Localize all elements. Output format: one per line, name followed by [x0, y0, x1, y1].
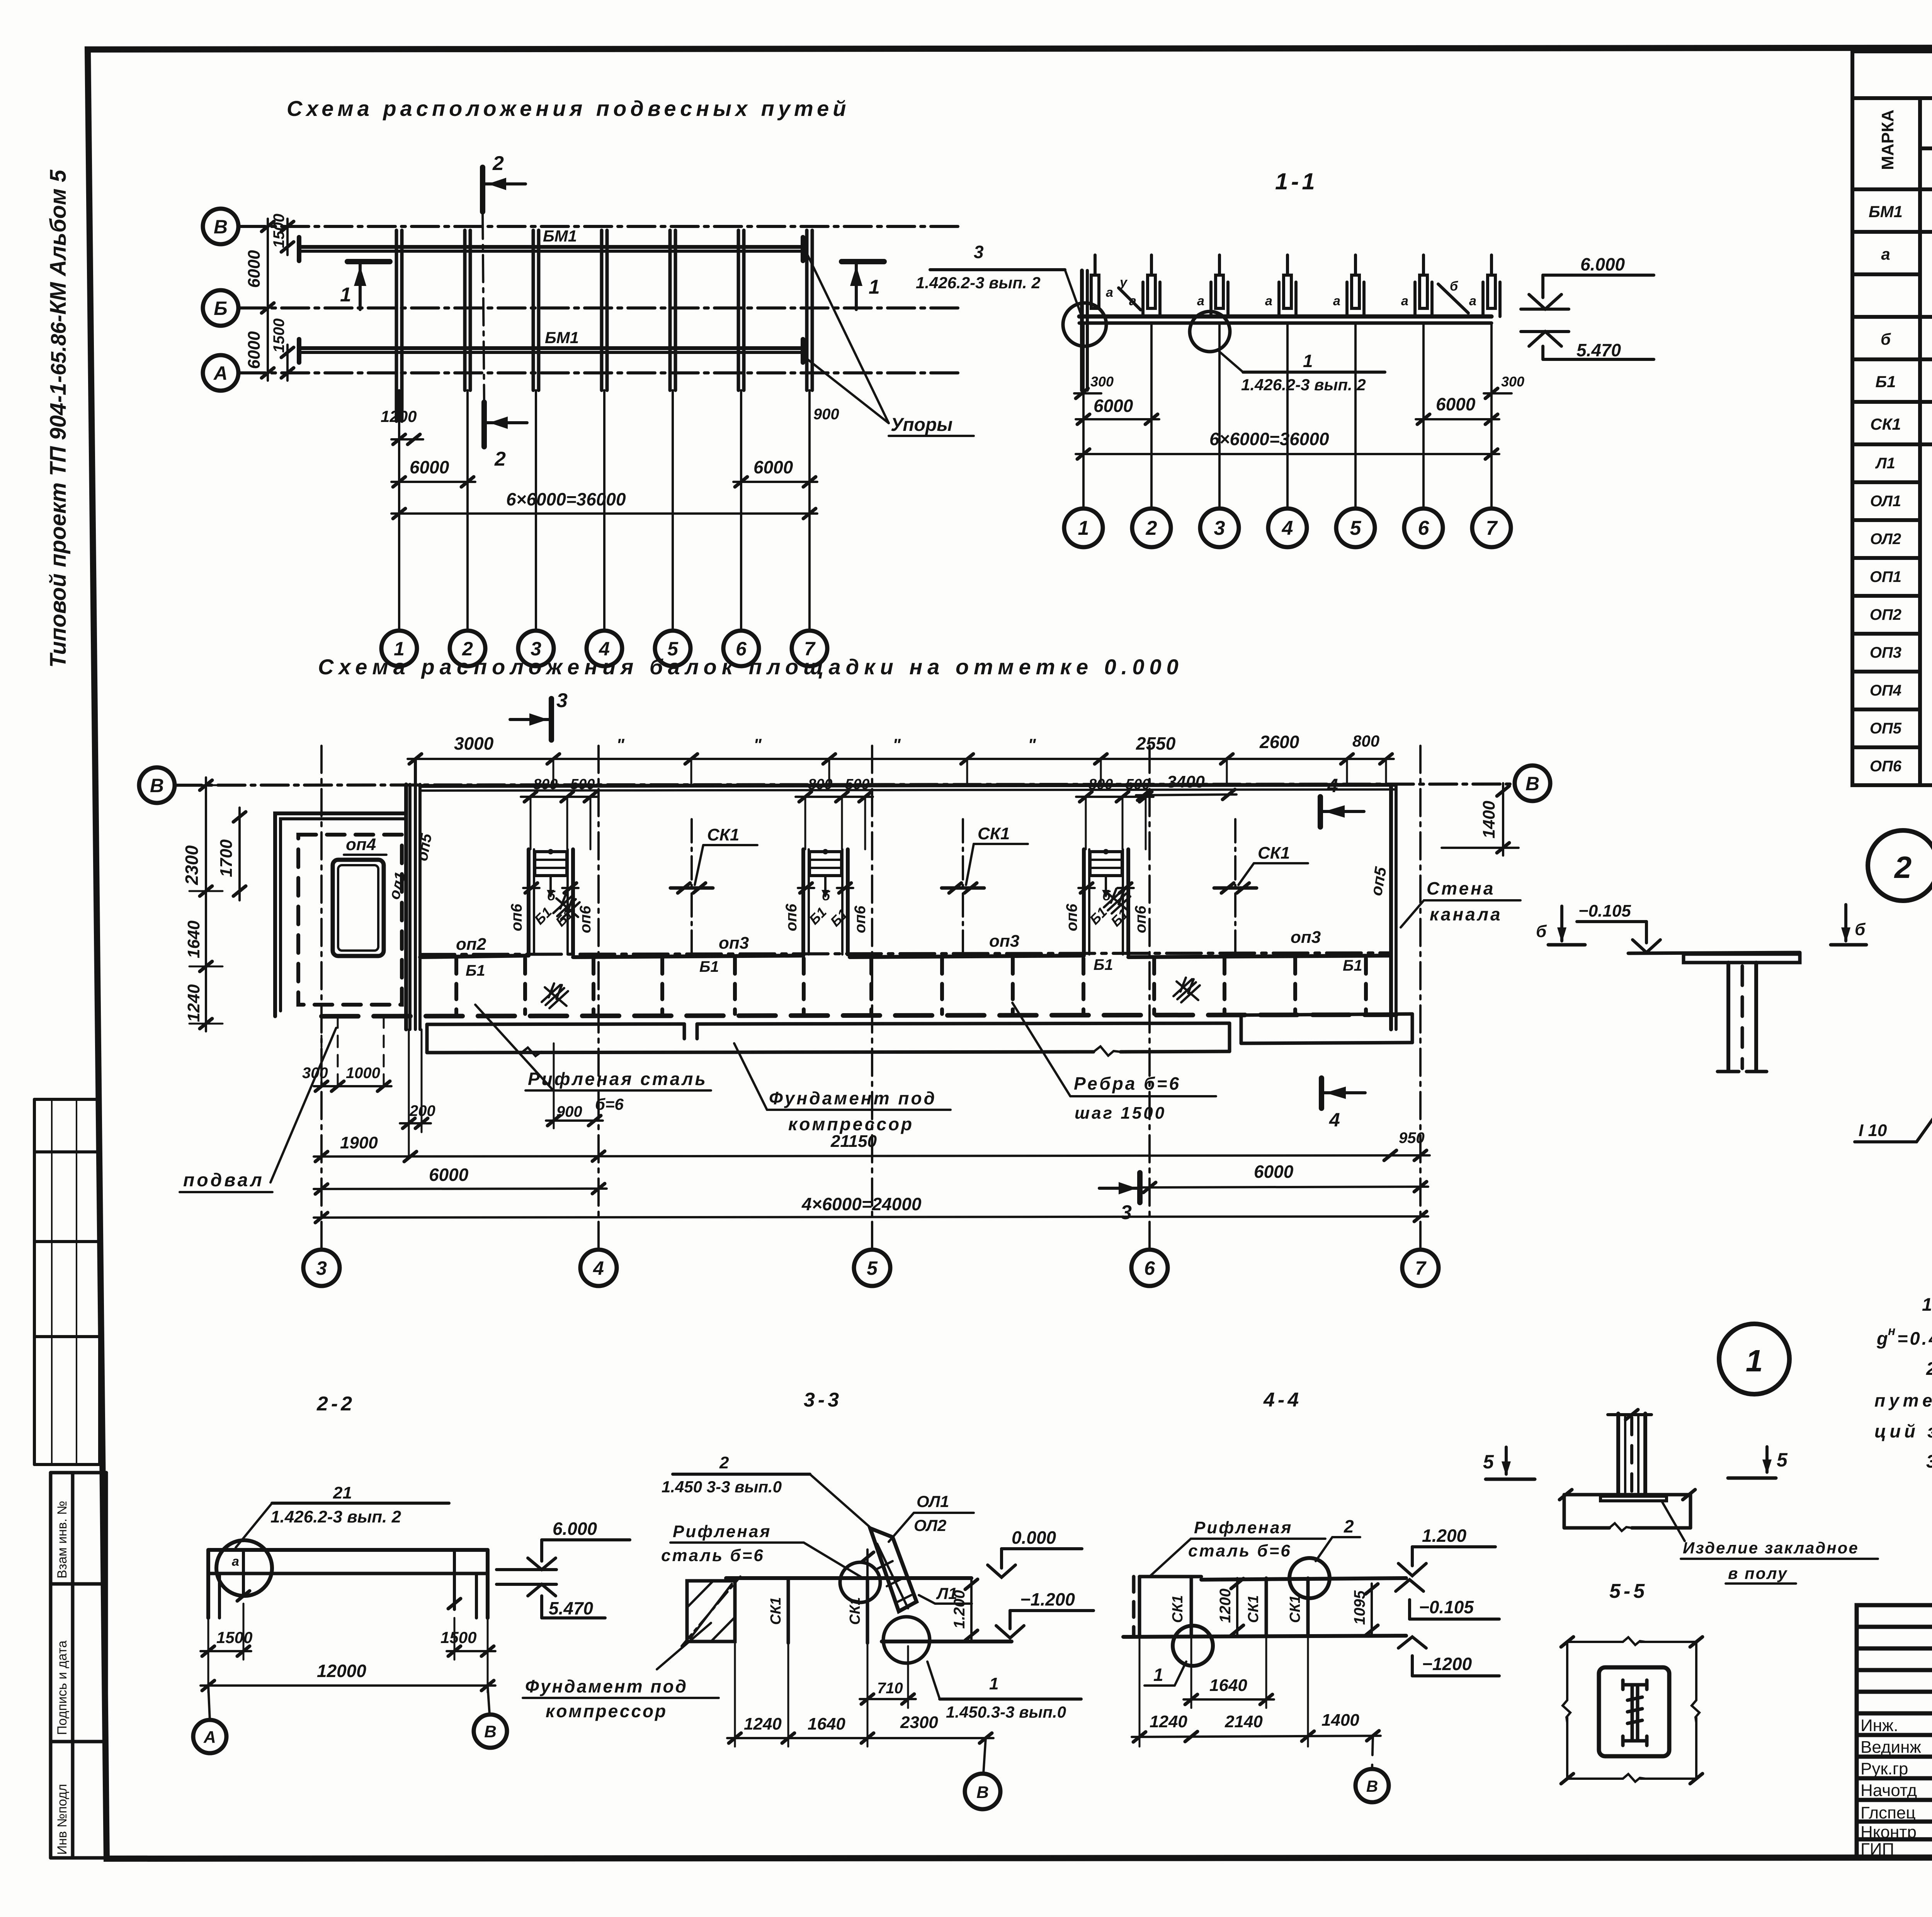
svg-text:а: а: [1265, 294, 1272, 308]
svg-text:5.470: 5.470: [1577, 340, 1621, 360]
svg-text:а: а: [1401, 294, 1408, 308]
svg-text:4: 4: [1327, 775, 1338, 796]
svg-text:б=6: б=6: [595, 1095, 624, 1113]
svg-text:1500: 1500: [440, 1628, 476, 1647]
svg-text:3: 3: [974, 242, 984, 262]
top dim line 3000 / " / 2550 / 2600 / 800: [408, 758, 1394, 760]
svg-text:1640: 1640: [1209, 1676, 1247, 1695]
column circle 4 (section 1-1): [1268, 509, 1307, 547]
svg-text:2140: 2140: [1225, 1712, 1263, 1731]
beam axis оп2/оп3 (dash-dot + solid): [420, 953, 1391, 954]
suspended-rail cross beam at column 7: [805, 230, 809, 390]
hanger a at column 7: [1481, 282, 1485, 316]
svg-text:900: 900: [813, 406, 839, 423]
2-2 detail circle: [216, 1540, 272, 1596]
axis line В (dash-dot): [238, 225, 962, 228]
svg-text:Подпись и дата: Подпись и дата: [55, 1640, 70, 1735]
svg-text:Б1: Б1: [1094, 956, 1113, 973]
svg-text:1200: 1200: [1217, 1589, 1234, 1623]
axis line Б (dash-dot): [238, 306, 962, 310]
svg-text:СК1: СК1: [768, 1597, 784, 1625]
basement (подвал) outer walls: [275, 813, 406, 1016]
column circle 6: [1131, 1250, 1168, 1286]
svg-text:2300: 2300: [900, 1713, 938, 1732]
svg-text:а: а: [1469, 294, 1476, 308]
column circle 3: [518, 631, 554, 666]
column circle 3 (section 1-1): [1200, 509, 1239, 547]
column line 5: [672, 390, 674, 631]
right rail stops (упоры): [801, 237, 805, 261]
label Изделие закладное в полу: [1662, 1501, 1685, 1541]
svg-text:6.000: 6.000: [1580, 254, 1625, 274]
svg-text:g: g: [1876, 1328, 1889, 1349]
3-3 dim 1.200 vertical: [970, 1578, 973, 1641]
svg-text:ОП4: ОП4: [1870, 682, 1901, 699]
column line 1: [398, 390, 400, 631]
column axis 6 (dash-dot): [1148, 746, 1151, 1250]
elevation mark 5.470: [1529, 332, 1561, 346]
svg-text:1240: 1240: [184, 984, 203, 1022]
svg-text:−1.200: −1.200: [1020, 1589, 1075, 1609]
4-4 dim 1640: [1184, 1698, 1274, 1701]
svg-text:канала: канала: [1430, 904, 1502, 924]
margin table: Взам инв № / Подпись и дата / Инв № подл: [51, 1473, 106, 1858]
svg-text:б: б: [1881, 330, 1891, 348]
3-3 ladder (diagonal): [870, 1528, 917, 1611]
dim line 6000+6000 between axes: [267, 219, 269, 381]
svg-text:4: 4: [1329, 1109, 1340, 1131]
svg-text:5-5: 5-5: [1609, 1580, 1648, 1602]
hanger a at column 3: [1209, 282, 1213, 316]
svg-text:СК1: СК1: [1170, 1595, 1186, 1623]
svg-text:ГИП: ГИП: [1861, 1840, 1894, 1859]
svg-text:2.Конструкции сварные. Сварку: 2.Конструкции сварные. Сварку элементов …: [1926, 1358, 1932, 1379]
section mark 4 (top): [1318, 797, 1323, 827]
3-3 floor line 0.000: [726, 1576, 971, 1580]
svg-text:1.450 3-3 вып.0: 1.450 3-3 вып.0: [662, 1478, 782, 1496]
svg-text:2600: 2600: [1259, 732, 1299, 752]
svg-text:путей производить электродам: путей производить электродами Э42А, оста…: [1874, 1390, 1932, 1410]
svg-text:ОЛ1: ОЛ1: [1870, 493, 1901, 510]
column line 4: [603, 390, 605, 631]
svg-text:б: б: [1855, 920, 1866, 939]
column line 5 (section 1-1): [1354, 323, 1357, 509]
svg-text:300: 300: [1501, 374, 1524, 390]
svg-text:3: 3: [316, 1257, 327, 1279]
column circle 6: [723, 631, 759, 666]
stair/ladder unit 1: [523, 849, 578, 954]
svg-text:Фундамент под: Фундамент под: [525, 1676, 688, 1696]
svg-text:2: 2: [1894, 850, 1912, 885]
svg-text:5: 5: [1777, 1449, 1788, 1471]
svg-text:6: 6: [1144, 1257, 1155, 1279]
svg-text:шаг 1500: шаг 1500: [1075, 1104, 1166, 1123]
3-3 detail circles on ladder: [840, 1562, 880, 1602]
svg-text:ОЛ2: ОЛ2: [1870, 531, 1901, 548]
svg-text:6000: 6000: [410, 457, 449, 477]
column circle 6 (section 1-1): [1404, 509, 1443, 547]
svg-text:н: н: [1888, 1324, 1895, 1338]
dim 3400: [1136, 794, 1236, 795]
svg-text:1095: 1095: [1351, 1590, 1368, 1625]
slab top edge (double): [420, 785, 1396, 786]
svg-text:2: 2: [1146, 517, 1157, 539]
4-4 dims 1240/2140/1400: [1132, 1736, 1381, 1737]
dim 300 1000: [314, 1085, 391, 1087]
dim 1400 (right): [1502, 783, 1504, 856]
suspended-rail cross beam at column 4: [600, 230, 604, 390]
svg-text:а: а: [1333, 294, 1340, 308]
column circle 7: [1402, 1250, 1439, 1286]
column circle 1 (section 1-1): [1064, 509, 1103, 547]
svg-text:1240: 1240: [1150, 1712, 1187, 1731]
svg-text:800: 800: [808, 776, 832, 793]
svg-text:Б1: Б1: [1343, 957, 1362, 974]
svg-text:компрессор: компрессор: [788, 1114, 914, 1134]
svg-text:Глспец: Глспец: [1861, 1803, 1916, 1822]
title block (основная надпись): [1857, 1605, 1932, 1858]
4-4 lower floor line: [1123, 1636, 1406, 1637]
svg-text:СК1: СК1: [978, 824, 1010, 843]
foundation under compressor (outline): [427, 1014, 1412, 1056]
dim 6000 (6-7): [1142, 1187, 1428, 1187]
column circle 5: [854, 1250, 890, 1286]
svg-text:=0.4кПа.: =0.4кПа.: [1897, 1328, 1932, 1349]
svg-text:МАРКА: МАРКА: [1878, 110, 1897, 170]
ribs (ребра) dashed verticals: [456, 958, 1366, 1014]
dim 6000 (cols 1-2): [391, 481, 475, 483]
svg-text:1400: 1400: [1480, 801, 1498, 839]
svg-text:1400: 1400: [1321, 1711, 1359, 1730]
svg-text:подвал: подвал: [183, 1170, 264, 1191]
column line 1 (section 1-1): [1082, 323, 1085, 509]
3-3 СК1 columns: [787, 1578, 790, 1643]
dim line 2300/1640/1240 (left): [205, 777, 207, 1031]
svg-text:ОП2: ОП2: [1870, 606, 1901, 623]
svg-text:Б: Б: [214, 298, 227, 319]
svg-text:1: 1: [989, 1674, 998, 1693]
svg-text:оп6: оп6: [577, 905, 594, 933]
svg-text:ОЛ1: ОЛ1: [917, 1492, 949, 1510]
rail БМ1 (top, double line): [299, 245, 803, 249]
svg-text:6×6000=36000: 6×6000=36000: [506, 489, 626, 509]
svg-text:ОП6: ОП6: [1870, 758, 1902, 775]
svg-text:7: 7: [1486, 517, 1498, 539]
dim 800/500 above unit 3: [1076, 796, 1153, 798]
svg-text:ОЛ2: ОЛ2: [914, 1516, 946, 1534]
svg-text:б: б: [822, 889, 830, 903]
svg-text:3000: 3000: [454, 733, 494, 754]
5-5 I-beam cross-section: [1623, 1680, 1647, 1745]
column СК1 #1 (cross mark): [670, 886, 713, 890]
svg-text:Нконтр: Нконтр: [1861, 1823, 1917, 1842]
svg-text:−1200: −1200: [1422, 1654, 1472, 1674]
svg-text:Схема расположения балок пл: Схема расположения балок площадки на отм…: [318, 655, 1184, 679]
detail circle 2: [1868, 830, 1932, 901]
section mark б (right): [1844, 905, 1847, 941]
svg-text:2: 2: [492, 152, 504, 175]
svg-text:1500: 1500: [270, 318, 287, 353]
svg-text:6000: 6000: [429, 1165, 469, 1185]
brace mark б near column 2: [1119, 288, 1141, 310]
svg-text:1.200: 1.200: [951, 1590, 968, 1629]
svg-text:1.426.2-3 вып. 2: 1.426.2-3 вып. 2: [1241, 376, 1366, 394]
svg-text:Инж.: Инж.: [1861, 1716, 1898, 1735]
dim 1500 top / bottom: [286, 219, 289, 255]
column circle 4: [587, 631, 622, 666]
table: ВЕДОМОСТЬ ЭЛЕМЕНТОВ: [1852, 51, 1932, 785]
column circle 5 (section 1-1): [1336, 509, 1375, 547]
svg-text:В: В: [484, 1722, 497, 1741]
svg-text:Схема расположения подвесных: Схема расположения подвесных путей: [287, 96, 850, 121]
svg-text:а: а: [1197, 294, 1204, 308]
svg-text:СК1: СК1: [707, 825, 739, 844]
column circle 5: [655, 631, 690, 666]
svg-text:1240: 1240: [744, 1715, 782, 1733]
svg-text:ций электродами Э42 по ГОС: ций электродами Э42 по ГОСТ 9467-75.: [1874, 1421, 1932, 1441]
column circle 2: [450, 631, 485, 666]
svg-text:1: 1: [1078, 517, 1089, 539]
svg-text:800: 800: [1352, 732, 1379, 750]
dim 1700: [238, 808, 241, 900]
dim 4x6000=24000: [314, 1216, 1428, 1218]
svg-text:оп6: оп6: [508, 903, 525, 931]
3-3 hatched wall block: [687, 1581, 735, 1641]
2-2 dim 1500 right: [447, 1650, 495, 1652]
svg-text:": ": [1028, 735, 1036, 754]
stair/ladder unit 3: [1078, 849, 1134, 954]
column circle 1: [381, 631, 417, 666]
svg-text:оп4: оп4: [346, 835, 376, 854]
svg-text:500: 500: [845, 776, 869, 793]
svg-text:1700: 1700: [217, 839, 236, 877]
svg-text:Б1: Б1: [1875, 373, 1896, 391]
svg-text:950: 950: [1399, 1129, 1425, 1146]
svg-text:оп6: оп6: [783, 903, 800, 931]
2-2 hangers: [242, 1550, 245, 1596]
svg-text:12000: 12000: [317, 1661, 366, 1681]
svg-text:3. Сварка ручная дуговая hш: 3. Сварка ручная дуговая hш=6мм.: [1926, 1451, 1932, 1471]
section mark 4 (bottom): [1319, 1078, 1324, 1108]
column line 3 (section 1-1): [1218, 323, 1221, 509]
section mark 2 (top): [480, 167, 485, 212]
column line 2: [466, 390, 469, 631]
brace mark б near column 7: [1438, 284, 1468, 313]
svg-text:500: 500: [1126, 776, 1150, 793]
svg-text:СК1: СК1: [1870, 415, 1901, 433]
svg-text:2: 2: [719, 1453, 729, 1472]
svg-text:б: б: [547, 889, 556, 903]
svg-text:−0.105: −0.105: [1578, 902, 1631, 920]
svg-text:б: б: [1536, 922, 1547, 941]
dim 6000 (cols 1-2): [1076, 418, 1159, 420]
column axis 5 (dash-dot): [871, 746, 873, 1250]
svg-text:а: а: [232, 1554, 239, 1569]
4-4 detail circle 2: [1289, 1558, 1330, 1598]
svg-text:БМ1: БМ1: [1869, 202, 1903, 221]
hanger a at column 1: [1091, 275, 1099, 308]
svg-text:СК1: СК1: [1245, 1595, 1262, 1623]
svg-text:3: 3: [556, 689, 568, 712]
svg-text:4-4: 4-4: [1263, 1389, 1302, 1411]
svg-text:5: 5: [867, 1257, 878, 1279]
4-4 upper floor line: [1201, 1578, 1406, 1580]
dim 6000 (3-4): [314, 1189, 607, 1189]
left rail stops (упоры): [297, 237, 301, 261]
svg-text:Ребра б=6: Ребра б=6: [1074, 1073, 1181, 1094]
svg-text:Фундамент под: Фундамент под: [769, 1088, 937, 1108]
section mark 2 (bottom): [481, 402, 487, 447]
grid axis circle А: [203, 355, 238, 391]
svg-text:Рифленая: Рифленая: [673, 1522, 771, 1541]
svg-text:оп2: оп2: [456, 935, 486, 954]
column СК1 #3 (cross mark): [1214, 886, 1257, 890]
svg-text:оп3: оп3: [1291, 928, 1321, 947]
svg-text:1900: 1900: [340, 1133, 378, 1152]
column line 6: [740, 390, 742, 631]
4-4 dim 1200 (vertical): [1236, 1578, 1238, 1636]
svg-text:4: 4: [1282, 517, 1293, 539]
svg-text:300: 300: [1090, 374, 1114, 390]
svg-text:5.470: 5.470: [549, 1598, 594, 1618]
svg-text:А: А: [213, 362, 228, 384]
svg-text:В: В: [1366, 1777, 1378, 1795]
rail БМ1 (bottom, double line): [299, 346, 803, 350]
axis line В (dash-dot): [175, 784, 1515, 785]
svg-text:4: 4: [593, 1257, 604, 1279]
5-5 plate: [1599, 1667, 1669, 1756]
svg-text:I 10: I 10: [1859, 1121, 1887, 1140]
stair/ladder unit 2: [798, 849, 853, 954]
svg-text:Б1: Б1: [699, 958, 719, 975]
svg-text:": ": [753, 735, 762, 754]
slab bottom edge (thick dashed): [321, 1015, 1396, 1016]
dim 6x6000=36000: [391, 512, 817, 515]
svg-text:Начотд: Начотд: [1861, 1781, 1917, 1800]
detail circle at column 1: [1063, 303, 1106, 346]
svg-text:Стена: Стена: [1427, 878, 1495, 898]
4-4 СК1 posts: [1190, 1578, 1193, 1636]
4-4 left wall block (dashed): [1132, 1577, 1136, 1636]
svg-text:Рифленая: Рифленая: [1194, 1518, 1293, 1537]
svg-text:оп3: оп3: [719, 934, 749, 953]
svg-text:1.Нормативная нагрузка на п: 1.Нормативная нагрузка на площадку на от…: [1922, 1294, 1932, 1315]
svg-text:0.000: 0.000: [1012, 1527, 1056, 1548]
svg-text:6: 6: [1418, 517, 1430, 539]
svg-text:СК1: СК1: [1287, 1595, 1303, 1623]
column axis 4 (dash-dot): [597, 746, 600, 1250]
svg-text:СК1: СК1: [1258, 844, 1290, 862]
hanger a at column 6: [1413, 282, 1417, 316]
column line 7 (section 1-1): [1490, 323, 1493, 509]
svg-text:1: 1: [1746, 1344, 1763, 1378]
svg-text:у: у: [1119, 275, 1128, 290]
svg-text:3: 3: [1121, 1201, 1132, 1224]
2-2 frame beam (double): [208, 1548, 488, 1552]
svg-text:6000: 6000: [245, 331, 264, 369]
svg-text:В: В: [976, 1783, 989, 1802]
column axis 3 (dash-dot): [320, 746, 323, 1250]
svg-text:б: б: [1450, 279, 1458, 294]
svg-text:1-1: 1-1: [1275, 168, 1318, 194]
svg-text:3-3: 3-3: [804, 1389, 842, 1411]
dim 800/500 above unit 1: [521, 796, 598, 798]
svg-text:сталь б=6: сталь б=6: [661, 1546, 765, 1565]
suspended-rail cross beam at column 2: [463, 230, 467, 390]
svg-text:900: 900: [556, 1103, 582, 1120]
main beam of section 1-1 (double line): [1079, 315, 1492, 319]
dim 1900 / 21150 / 950: [314, 1155, 1430, 1157]
column circle 2 (section 1-1): [1132, 509, 1171, 547]
2-2 left leg: [206, 1550, 210, 1618]
svg-text:А: А: [203, 1728, 216, 1747]
svg-text:1.200: 1.200: [1422, 1526, 1467, 1546]
svg-text:2: 2: [494, 448, 506, 470]
svg-text:2550: 2550: [1136, 733, 1176, 754]
svg-text:2300: 2300: [182, 845, 202, 885]
wall double line (canal wall left): [404, 784, 408, 1029]
svg-text:в полу: в полу: [1728, 1564, 1788, 1582]
svg-text:В: В: [1526, 773, 1539, 794]
svg-text:−0.105: −0.105: [1419, 1597, 1474, 1617]
dim 6000 (cols 6-7): [733, 481, 817, 483]
4-4 detail circle 1: [1173, 1626, 1213, 1666]
grid axis circle В (left): [139, 767, 175, 803]
suspended-rail cross beam at column 3: [532, 230, 535, 390]
svg-text:": ": [893, 735, 901, 754]
column line 3: [535, 390, 537, 631]
detail: beam with plate (tee) plan fragment: [1628, 953, 1800, 953]
leaders to label Упоры: [808, 255, 889, 423]
svg-text:1640: 1640: [184, 920, 203, 958]
svg-text:800: 800: [1088, 776, 1113, 793]
section mark 3 (bottom): [1137, 1173, 1143, 1203]
svg-text:6000: 6000: [1254, 1162, 1294, 1182]
svg-text:1.426.2-3 вып. 2: 1.426.2-3 вып. 2: [916, 274, 1041, 292]
column axis 7 (dash-dot): [1419, 746, 1422, 1250]
3-3 lower floor -1.200: [882, 1640, 1012, 1643]
hanger a at column 5: [1345, 282, 1349, 316]
svg-text:оп6: оп6: [1063, 903, 1080, 931]
column line 6 (section 1-1): [1422, 323, 1425, 509]
dim 6x6000=36000: [1076, 453, 1499, 455]
svg-text:1: 1: [1303, 351, 1313, 371]
svg-text:Изделие закладное: Изделие закладное: [1683, 1539, 1859, 1557]
detail circle 1: [1719, 1324, 1789, 1394]
svg-text:Рифленая сталь: Рифленая сталь: [528, 1069, 707, 1089]
svg-text:сталь б=6: сталь б=6: [1188, 1541, 1292, 1560]
svg-text:6000: 6000: [753, 457, 793, 477]
svg-text:5: 5: [1483, 1451, 1494, 1473]
svg-text:ОП5: ОП5: [1870, 720, 1902, 737]
svg-text:Вединж: Вединж: [1861, 1738, 1921, 1757]
column line 7: [808, 390, 811, 631]
svg-text:Б1: Б1: [466, 962, 485, 979]
svg-text:800: 800: [533, 776, 558, 793]
svg-text:1640: 1640: [808, 1715, 845, 1733]
svg-text:Л1: Л1: [1875, 455, 1895, 472]
svg-text:Упоры: Упоры: [891, 415, 952, 435]
slab plate оп4 (opening): [333, 860, 384, 956]
svg-text:ОП1: ОП1: [1870, 568, 1901, 585]
svg-text:Инв №подл: Инв №подл: [55, 1784, 70, 1855]
column circle 7: [792, 631, 827, 666]
margin revision table (upper): [34, 1099, 100, 1465]
svg-text:1500: 1500: [216, 1628, 252, 1647]
svg-text:2: 2: [1344, 1516, 1354, 1536]
svg-text:3: 3: [1214, 517, 1225, 539]
svg-text:В: В: [150, 775, 164, 796]
